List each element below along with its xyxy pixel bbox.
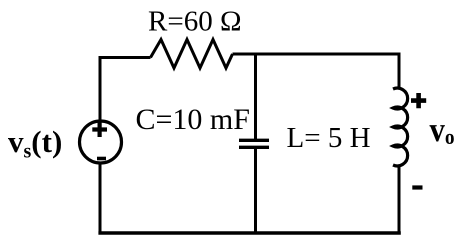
voltage source circle [80,121,122,163]
wire: middle vertical lower segment (capacitor to bottom wire) [254,148,257,234]
inductor L (four loops) [393,88,408,166]
wire: top-left horizontal segment from source to resistor [100,56,151,59]
- polarity mark inside source [97,157,106,161]
svg-text:L= 5 H: L= 5 H [287,122,371,154]
svg-text:vs(t): vs(t) [8,124,62,163]
wire: right vertical upper segment (top-right corner to inductor) [398,53,401,89]
wire: middle vertical upper segment (top node to capacitor) [254,53,257,141]
- polarity mark for vo [412,185,422,189]
svg-text:C=10 mF: C=10 mF [136,103,250,136]
wire: top horizontal segment from resistor to top-right corner [233,53,400,56]
+ polarity mark inside source [92,122,107,137]
capacitor C (two plates) [239,140,269,147]
wire: left vertical upper segment (source top to top-left corner) [99,56,102,122]
svg-text:R=60 Ω: R=60 Ω [148,6,242,38]
wire: left vertical lower segment (source bottom to bottom-left corner) [99,163,102,234]
svg-text:vo: vo [430,111,455,149]
wire: bottom horizontal segment (ground return) [98,231,400,235]
+ polarity mark for vo [411,93,426,108]
wire: right vertical lower segment (inductor to bottom-right corner) [398,165,401,233]
resistor R (zigzag) [151,40,233,69]
